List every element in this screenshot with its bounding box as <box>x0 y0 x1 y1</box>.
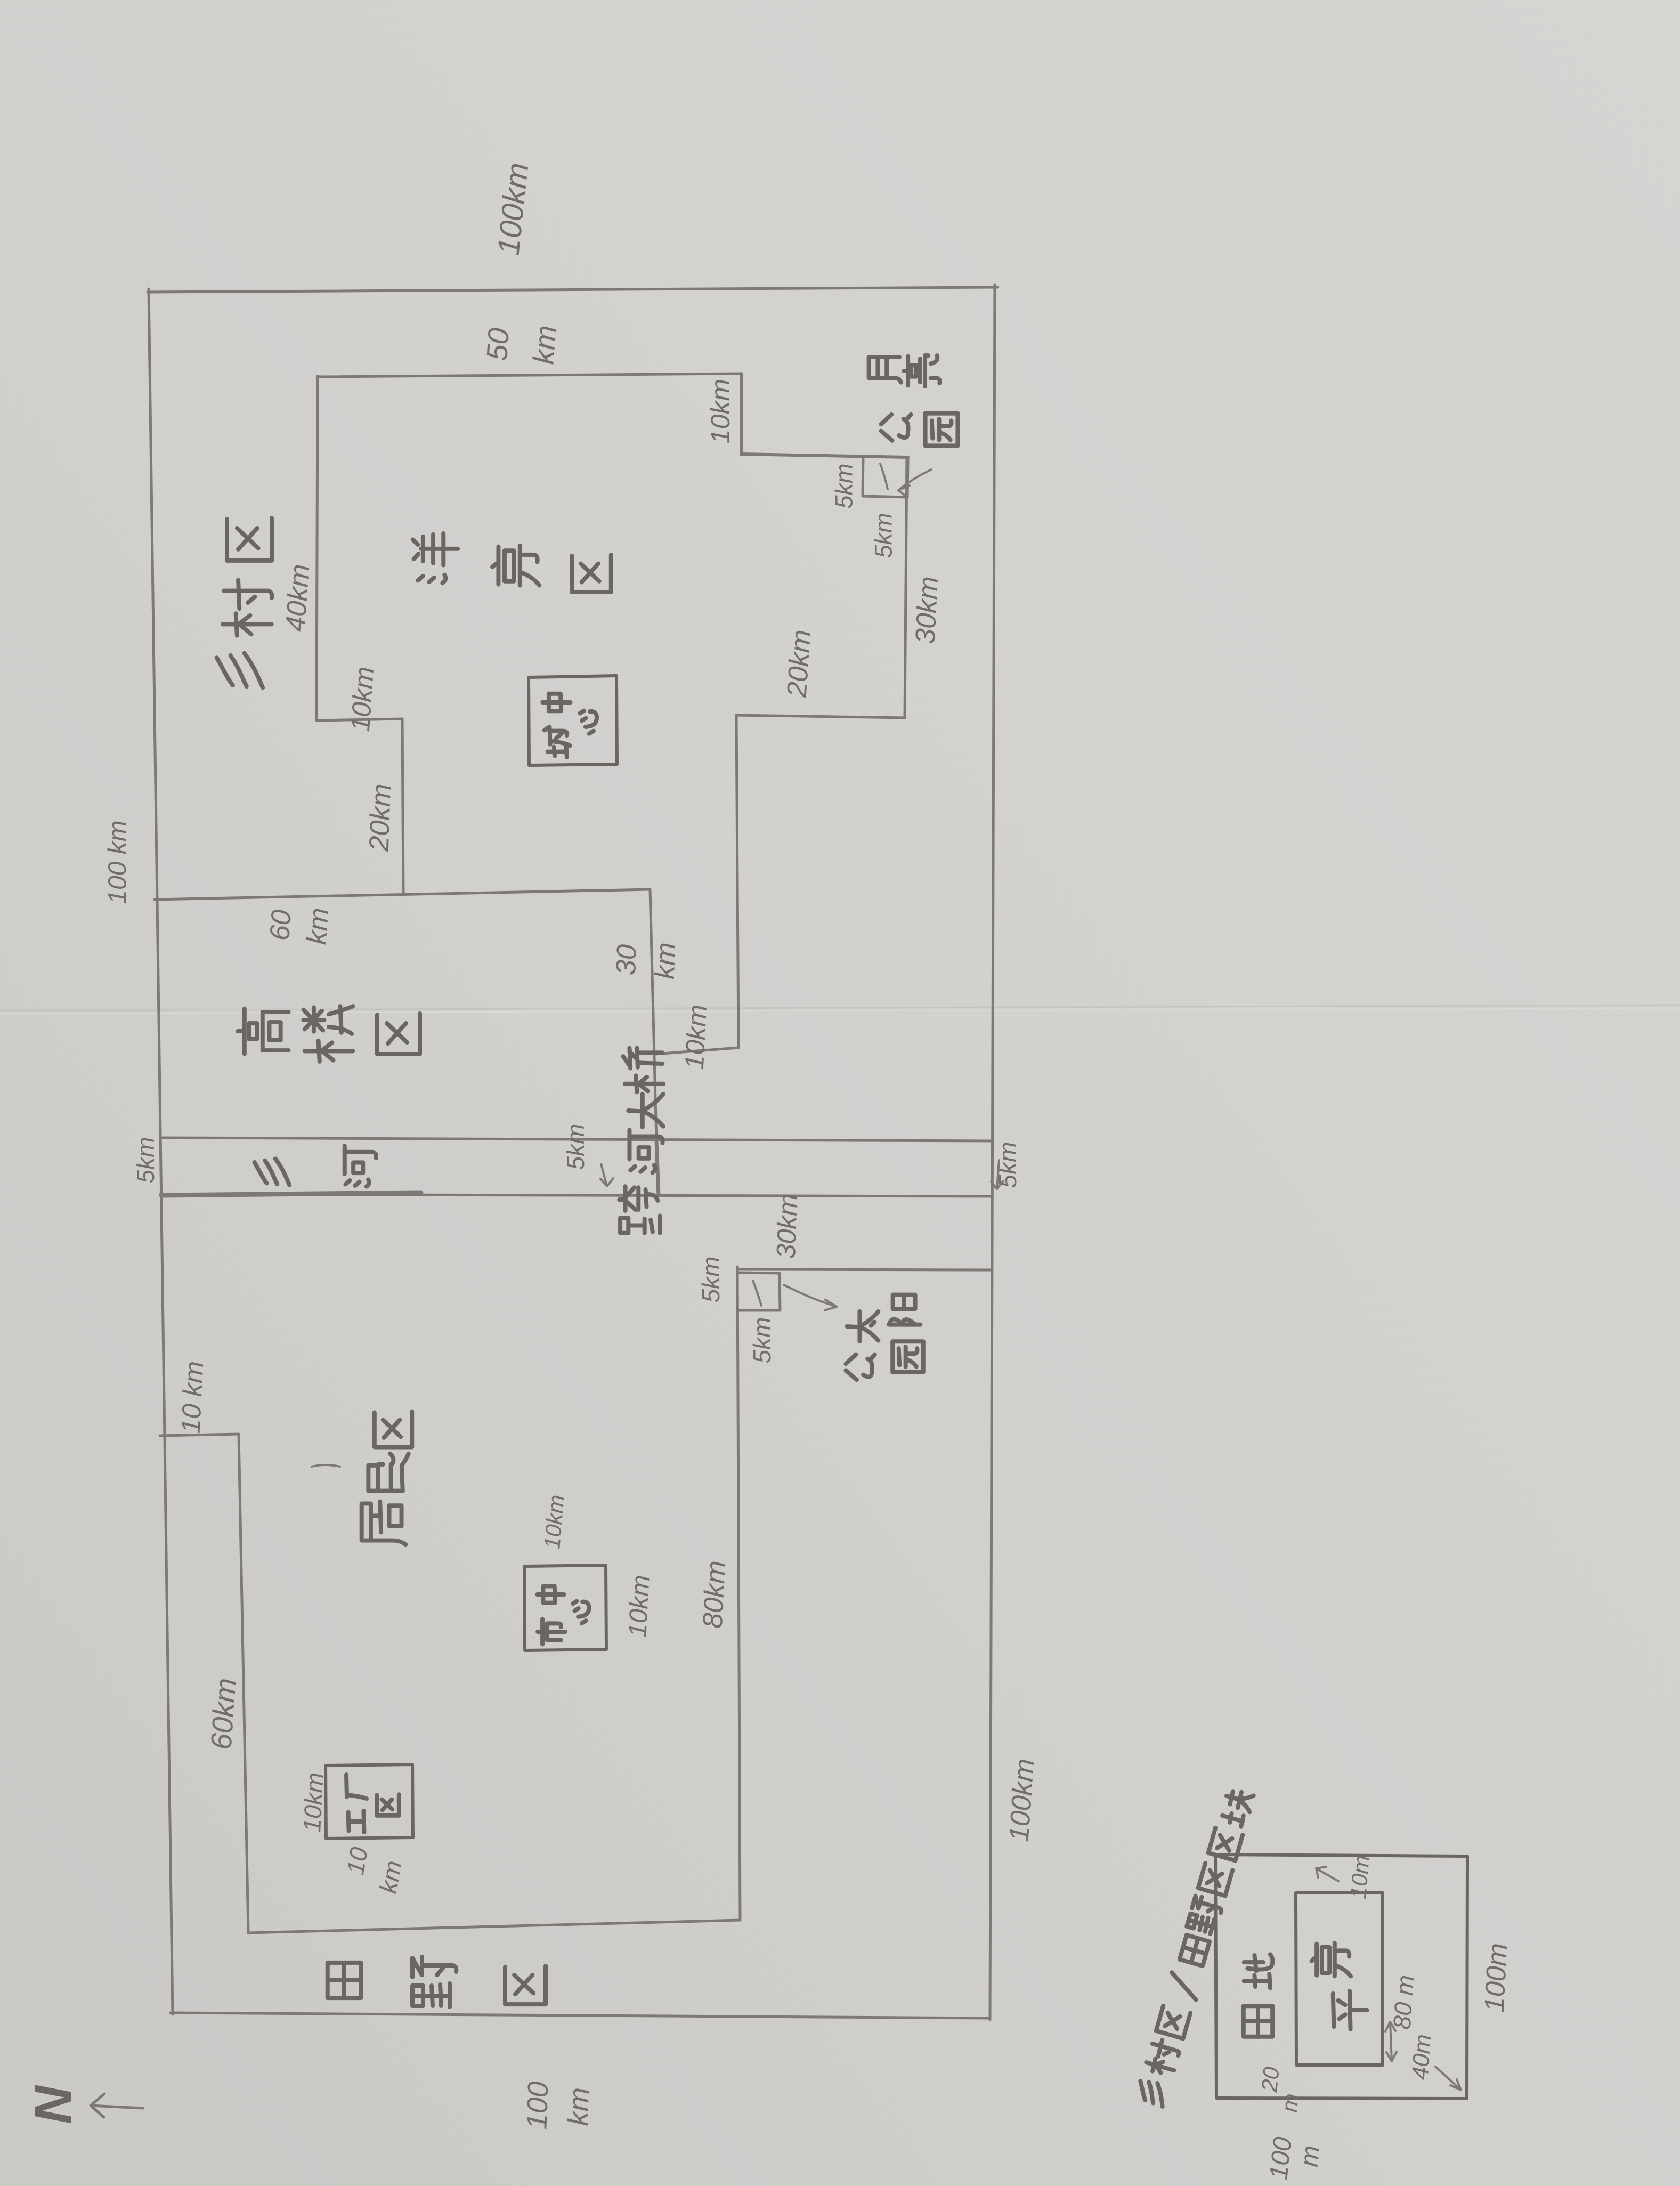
svg-text:10km: 10km <box>705 379 735 444</box>
洋房区 south step 20km horizontal <box>736 715 905 718</box>
map outer boundary 100km x 100km <box>148 287 997 292</box>
高楼区 top boundary 60km <box>155 889 650 900</box>
居民区 south boundary <box>248 1920 740 1933</box>
region label 居民区 <box>362 1502 406 1545</box>
svg-text:5km: 5km <box>748 1317 776 1364</box>
svg-text:100: 100 <box>1264 2135 1297 2181</box>
洋房区 40km vertical <box>736 715 738 1048</box>
10km horizontal to bridge line <box>655 1048 738 1054</box>
svg-text:N: N <box>23 2085 83 2124</box>
城中心 box <box>529 676 617 765</box>
svg-text:60km: 60km <box>204 1677 242 1751</box>
工厂区 text <box>346 1775 367 1799</box>
paper crease <box>0 1005 1680 1010</box>
stray pencil mark <box>312 1465 340 1467</box>
太阳公园 square 5km <box>737 1273 780 1310</box>
vertical double arrow <box>1385 2022 1397 2061</box>
svg-text:100m: 100m <box>1479 1942 1514 2013</box>
svg-text:m: m <box>1277 2092 1303 2114</box>
arrow into river east <box>991 1160 1003 1189</box>
svg-text:80 m: 80 m <box>1387 1974 1419 2030</box>
label 平房 <box>1333 1991 1367 2029</box>
svg-text:20km: 20km <box>364 783 397 852</box>
30km vertical boundary (to bridge) <box>650 889 656 1141</box>
svg-text:m: m <box>1295 2144 1326 2168</box>
svg-text:5km: 5km <box>562 1124 589 1170</box>
月亮公园 arrow <box>898 469 931 497</box>
river 乡河 south bank <box>160 1194 992 1196</box>
月亮公园 label <box>869 357 901 383</box>
step 10km horizontal <box>316 719 402 720</box>
svg-text:10m: 10m <box>1345 1854 1374 1899</box>
svg-text:km: km <box>374 1858 407 1895</box>
svg-text:10: 10 <box>341 1845 373 1877</box>
compass arrow (north) <box>91 2094 143 2117</box>
工厂区 box <box>326 1764 413 1839</box>
月亮公园 slash <box>880 464 888 489</box>
svg-text:80km: 80km <box>697 1560 732 1629</box>
svg-text:km: km <box>302 906 335 945</box>
svg-text:10km: 10km <box>345 666 379 733</box>
svg-text:100km: 100km <box>1004 1758 1041 1843</box>
river label 河 <box>345 1146 376 1186</box>
太阳公园 slash <box>753 1281 761 1306</box>
svg-text:5km: 5km <box>697 1257 725 1303</box>
洋房区 NE step 10km vertical <box>740 374 743 455</box>
月亮公园 square 5km <box>863 457 908 497</box>
svg-text:60: 60 <box>264 909 297 942</box>
svg-text:10km: 10km <box>623 1574 655 1638</box>
svg-text:10km: 10km <box>298 1771 329 1833</box>
太阳公园 label <box>847 1311 879 1341</box>
block inner rect 平房 <box>1296 1892 1383 2065</box>
svg-text:30km: 30km <box>771 1193 803 1259</box>
svg-text:10km: 10km <box>679 1003 712 1070</box>
region label 田野区 <box>328 1963 361 1998</box>
svg-text:30: 30 <box>611 944 643 976</box>
label 田地 <box>1244 2006 1272 2037</box>
river 乡河 north bank <box>161 1138 992 1141</box>
居民区 10km step horizontal <box>160 1434 239 1436</box>
洋房区 north-east horizontal <box>741 454 908 457</box>
corner arrow <box>1435 2067 1461 2090</box>
洋房区 east boundary 30km <box>905 457 907 718</box>
region label 高楼区 <box>238 1009 288 1054</box>
svg-text:5km: 5km <box>870 513 897 558</box>
arrow into river mid <box>600 1164 613 1186</box>
step 20km vertical <box>402 719 403 895</box>
block outer square 100m <box>1215 1855 1467 2099</box>
svg-text:50: 50 <box>480 327 515 362</box>
svg-text:5km: 5km <box>132 1137 159 1184</box>
svg-text:10km: 10km <box>539 1494 569 1550</box>
洋房区 top boundary 50km <box>318 374 741 377</box>
svg-text:20km: 20km <box>782 629 817 699</box>
svg-text:10 km: 10 km <box>175 1361 209 1435</box>
title 乡村区/田野区区块 <box>1135 2078 1168 2107</box>
居民区 east boundary 80km <box>737 1267 740 1920</box>
bridge 跨河大桥 crossing river <box>656 1141 659 1196</box>
svg-text:20: 20 <box>1256 2066 1284 2094</box>
region label 乡村区 <box>217 653 263 688</box>
市中心 text <box>538 1619 565 1644</box>
洋房区 west boundary 40km <box>316 376 318 720</box>
river label 乡 <box>255 1159 290 1185</box>
太阳公园 arrow <box>784 1285 837 1310</box>
跨河大桥 label <box>619 1186 660 1233</box>
label 10m + arrow (top) <box>1316 1867 1338 1881</box>
svg-text:100: 100 <box>521 2081 554 2130</box>
svg-text:40m: 40m <box>1407 2034 1436 2081</box>
svg-text:100 km: 100 km <box>104 820 132 904</box>
river south bank thick overdraw <box>161 1193 421 1195</box>
svg-text:40km: 40km <box>280 563 316 633</box>
svg-text:5km: 5km <box>831 463 858 508</box>
30km boundary south of river <box>737 1269 991 1270</box>
城中心 text <box>545 727 570 757</box>
svg-text:km: km <box>527 324 563 365</box>
svg-text:km: km <box>562 2087 595 2126</box>
svg-text:km: km <box>650 942 681 979</box>
svg-text:30km: 30km <box>910 576 945 645</box>
市中心 box <box>524 1565 606 1650</box>
居民区 west boundary 60km <box>239 1434 248 1933</box>
region label 洋房区 <box>413 533 458 583</box>
